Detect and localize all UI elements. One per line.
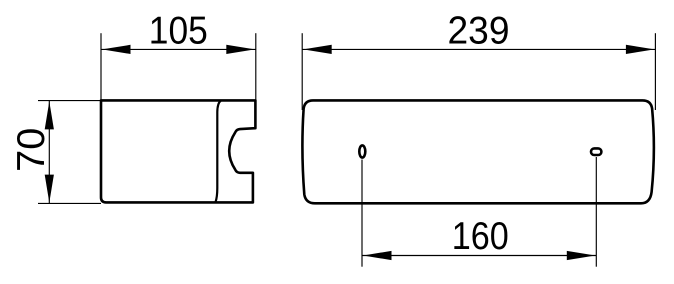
- dim 70 arrow up: [45, 101, 54, 129]
- dim 70 arrow down: [45, 175, 54, 203]
- dim 239 arrow right: [626, 45, 655, 54]
- hole right (horizontal slot): [591, 148, 601, 155]
- dim 105 arrow right: [226, 45, 255, 54]
- dim 160 arrow left: [363, 251, 392, 260]
- dim 105 arrow left: [102, 45, 131, 54]
- dim 70 extension line bottom: [38, 202, 101, 204]
- dim 239 extension line left: [301, 33, 303, 110]
- dim 70 extension line top: [38, 100, 101, 102]
- dim 70 dimension line: [48, 101, 50, 204]
- svg-text:160: 160: [452, 215, 509, 258]
- side view inner face line: [216, 101, 221, 203]
- side view outline: [101, 100, 255, 202]
- dim 160 extension line right: [595, 157, 597, 267]
- dim 105 extension line left: [100, 33, 102, 100]
- svg-text:239: 239: [448, 10, 510, 53]
- svg-text:70: 70: [10, 128, 53, 172]
- dim 239 extension line right: [654, 33, 656, 110]
- dim 160 dimension line: [362, 255, 596, 257]
- dim 105 extension line right: [255, 33, 257, 100]
- dim 105 dimension line: [101, 48, 256, 50]
- front view outline: [302, 100, 653, 203]
- svg-text:105: 105: [149, 10, 208, 53]
- dim 239 arrow left: [303, 45, 332, 54]
- dim 160 arrow right: [567, 251, 596, 260]
- dim 160 extension line left: [361, 160, 363, 267]
- hole left (vertical slot): [359, 145, 365, 157]
- dim 239 dimension line: [302, 48, 655, 50]
